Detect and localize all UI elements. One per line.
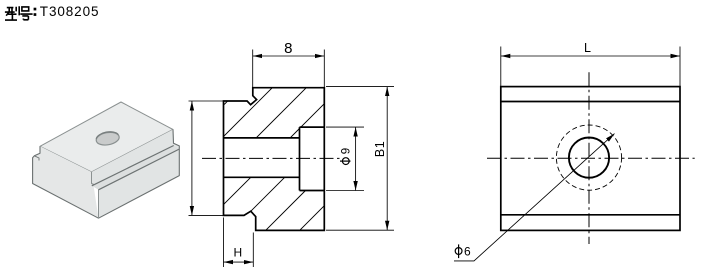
dashed circle phi9 (556, 125, 621, 190)
top face (40, 102, 173, 172)
svg-text:8: 8 (284, 40, 292, 57)
solid circle phi6 (569, 138, 609, 178)
CJK 号 (hand-drawn) (20, 7, 32, 20)
hatching (224, 88, 325, 231)
groove dark band on SE face (92, 146, 180, 190)
B1 dimension (right) (326, 87, 394, 231)
H dimension (bottom) (224, 218, 254, 268)
hole ellipse (95, 130, 120, 147)
B dimension (top, label 8) (253, 50, 325, 88)
hole phi6 edges (224, 138, 300, 177)
left (SW) face (33, 146, 99, 218)
silhouette outline (33, 130, 180, 219)
title text: 型号：T308205 (5, 4, 100, 20)
section outline (224, 88, 325, 231)
fullwidth colon (34, 8, 37, 11)
svg-text:9: 9 (340, 148, 352, 154)
phi6 leader (454, 134, 615, 261)
svg-text:6: 6 (464, 244, 471, 258)
svg-text:B1: B1 (373, 141, 387, 157)
CJK 型 (hand-drawn) (5, 6, 19, 20)
svg-text:H: H (233, 246, 242, 260)
svg-text:T308205: T308205 (40, 4, 100, 19)
counterbore phi9 edges (300, 127, 325, 190)
L dimension (501, 47, 680, 87)
front vertical edge (92, 172, 99, 218)
right (SE) face (92, 130, 180, 219)
section labels (233, 40, 387, 260)
phi9 dimension (326, 127, 364, 190)
center line (202, 157, 341, 159)
left unlabeled dimension (189, 101, 224, 215)
step lines (501, 102, 680, 215)
groove notch on left back edge (34, 156, 39, 161)
center lines (588, 72, 590, 244)
outline rect (501, 87, 680, 231)
svg-text:L: L (584, 41, 591, 55)
